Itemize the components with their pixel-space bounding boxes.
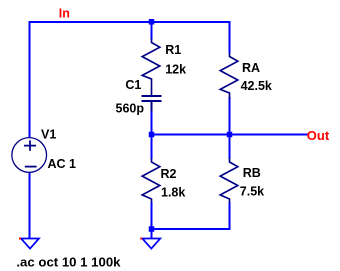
svg-text:R1: R1: [165, 43, 181, 57]
svg-text:RB: RB: [243, 166, 261, 180]
wire: RA bottom to Out net: [229, 97, 231, 135]
wire: bottom rail R2/RB to ground: [152, 202, 230, 229]
svg-text:.ac oct 10 1 100k: .ac oct 10 1 100k: [16, 254, 121, 269]
wire: R1 top stub from In rail: [151, 22, 153, 40]
svg-text:R2: R2: [161, 167, 177, 181]
wire: ground 2 stub: [151, 229, 153, 238]
svg-text:V1: V1: [41, 127, 56, 141]
wire: RB top stub from Out net: [229, 135, 231, 160]
node junction C1/R2/Out: [149, 132, 155, 138]
svg-text:In: In: [59, 7, 70, 21]
svg-text:Out: Out: [307, 128, 330, 143]
ground 1 (below V1): [21, 239, 39, 249]
svg-text:RA: RA: [242, 61, 260, 75]
wire: In net (left rail, top rail, RA drop): [30, 22, 230, 138]
svg-text:7.5k: 7.5k: [240, 185, 264, 199]
node junction R2 bottom/ground: [149, 226, 155, 232]
capacitor C1: [142, 95, 162, 97]
voltage source V1: [12, 138, 47, 173]
resistor R1: [142, 39, 160, 97]
node junction at R1 top: [149, 19, 155, 25]
node junction RA/RB/Out: [227, 132, 233, 138]
svg-text:12k: 12k: [165, 63, 186, 77]
svg-text:42.5k: 42.5k: [241, 79, 272, 93]
wire: Out net horizontal (C1 bottom to Out label): [152, 111, 309, 135]
resistor RB: [220, 158, 238, 203]
svg-text:1.8k: 1.8k: [161, 186, 185, 200]
wire: R2 top stub from Out net: [151, 135, 153, 160]
resistor RA: [220, 53, 238, 100]
svg-text:AC 1: AC 1: [48, 157, 77, 171]
wire: V1 bottom to ground 1: [29, 172, 31, 238]
resistor R2: [142, 158, 160, 203]
svg-text:C1: C1: [125, 78, 141, 92]
svg-text:560p: 560p: [116, 102, 145, 116]
ground 2 (below R2): [142, 239, 160, 249]
